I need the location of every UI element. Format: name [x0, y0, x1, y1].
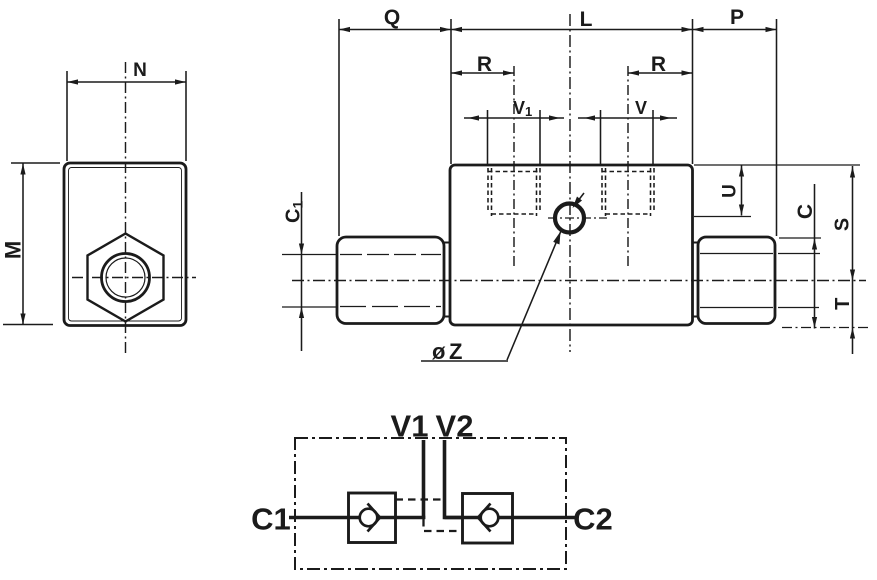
- check valve CV2: [463, 494, 513, 544]
- svg-text:R: R: [651, 53, 666, 76]
- left hex end fitting: [337, 237, 444, 324]
- valve body: [450, 165, 693, 325]
- svg-text:T: T: [832, 298, 854, 310]
- side view horizontal centerline: [292, 280, 866, 282]
- right hex end fitting: [698, 237, 775, 324]
- wire C1 to valve: [289, 516, 362, 520]
- svg-text:P: P: [730, 6, 744, 29]
- dimension R right: [628, 53, 693, 76]
- gauge hole Z: [555, 204, 584, 233]
- line V2: [445, 440, 463, 518]
- schematic enclosure boundary: [295, 438, 566, 569]
- dimension M: [1, 163, 61, 325]
- left view horizontal centerline: [72, 277, 196, 279]
- svg-text:C1: C1: [251, 502, 291, 537]
- pilot port V2 centerline: [627, 66, 629, 266]
- pilot port V1 centerline: [513, 66, 515, 266]
- dimension Q: [339, 6, 451, 236]
- svg-text:M: M: [1, 241, 26, 259]
- svg-text:L: L: [580, 8, 593, 31]
- svg-text:V1: V1: [391, 409, 429, 444]
- port bore thread circle: [106, 258, 145, 297]
- dimension V: [578, 98, 677, 165]
- dimension C: [778, 184, 868, 329]
- dimension P: [693, 6, 777, 236]
- pilot line CV1 to V2: [396, 498, 445, 500]
- side view vertical centerline: [569, 14, 571, 352]
- wire valve2 to C2: [497, 516, 576, 520]
- svg-text:C2: C2: [573, 502, 613, 537]
- svg-text:S: S: [832, 218, 854, 231]
- gauge hole horizontal centerline: [548, 217, 607, 219]
- left view body inner edge: [69, 168, 182, 322]
- right fitting neck: [693, 243, 699, 317]
- dimension S and T: [832, 166, 855, 354]
- dimension V1: [464, 98, 564, 165]
- check valve CV1: [349, 493, 396, 543]
- dimension C1: [282, 192, 338, 351]
- dimension L: [451, 8, 693, 164]
- left view vertical centerline: [125, 62, 127, 355]
- pilot line V1 to CV2: [424, 519, 463, 531]
- leader Z: [421, 193, 584, 364]
- pilot port V2 hidden lines: [602, 168, 654, 216]
- dimension R left: [451, 53, 514, 76]
- svg-text:Q: Q: [384, 6, 400, 29]
- line V1: [422, 440, 426, 519]
- svg-text:N: N: [133, 60, 147, 81]
- svg-text:C: C: [794, 204, 817, 219]
- wire V2 to valve2: [445, 516, 483, 520]
- left view body outline: [64, 163, 186, 326]
- hex nut end view: [88, 234, 164, 322]
- wire valve to V1 junction: [377, 516, 425, 520]
- port bore outer circle: [102, 254, 150, 302]
- svg-text:V: V: [635, 98, 647, 118]
- svg-text:R: R: [477, 53, 492, 76]
- dimension U: [694, 165, 860, 217]
- left fitting neck: [444, 243, 450, 317]
- pilot port V1 hidden lines: [488, 168, 540, 216]
- svg-text:V2: V2: [436, 409, 474, 444]
- dimension N: [67, 60, 186, 161]
- svg-text:U: U: [720, 184, 741, 198]
